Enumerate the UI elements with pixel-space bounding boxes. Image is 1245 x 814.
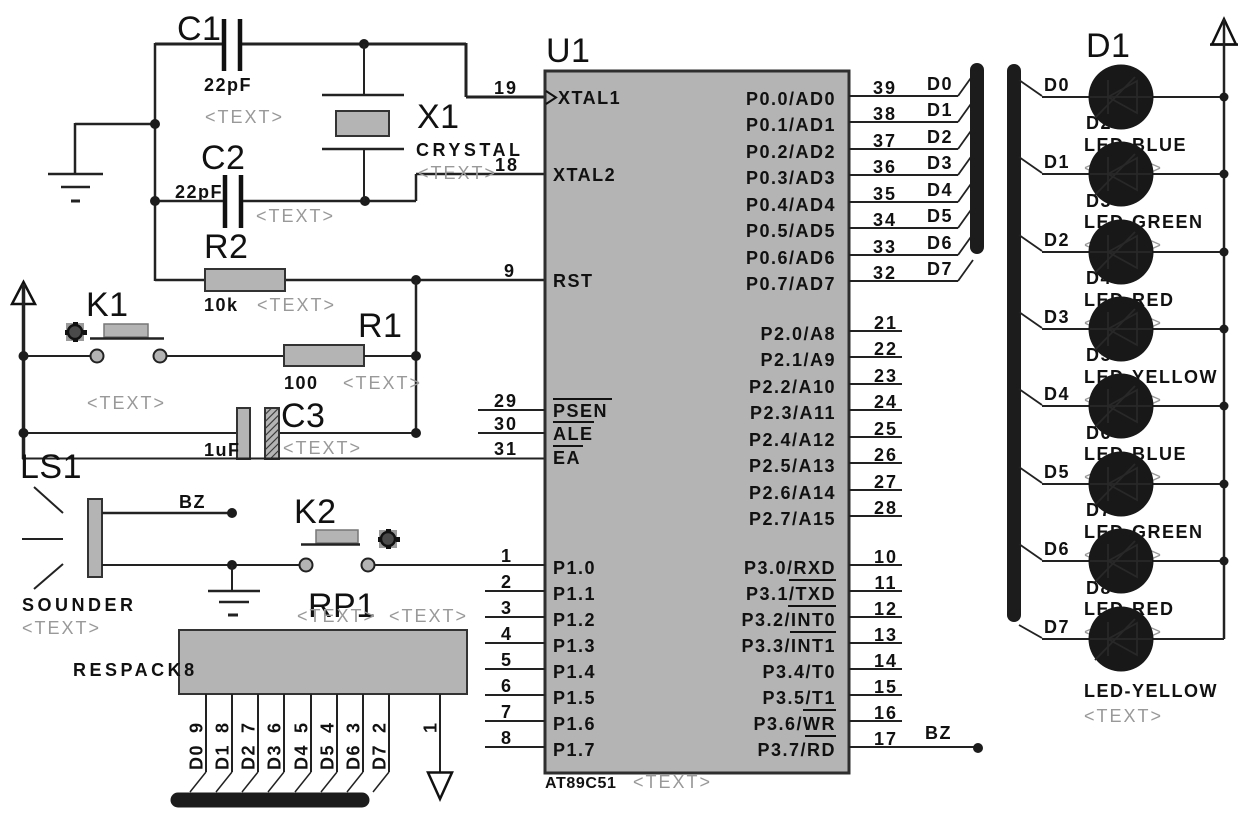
node junction sounder/ground	[227, 560, 237, 570]
wire diagonal to data bus (D4)	[295, 772, 311, 792]
svg-text:17: 17	[874, 729, 898, 749]
overline for P3.2/INT0	[788, 605, 836, 607]
wire diagonal to bus D2	[958, 128, 973, 149]
wire diagonal to data bus (D5)	[321, 772, 337, 792]
svg-text:P1.7: P1.7	[553, 740, 596, 760]
svg-text:34: 34	[873, 210, 897, 230]
node junction VCC rail row 2	[1220, 170, 1229, 179]
wire C3 row	[23, 432, 237, 434]
svg-text:P0.1/AD1: P0.1/AD1	[746, 115, 836, 135]
svg-text:D6: D6	[344, 744, 364, 770]
svg-text:P1.1: P1.1	[553, 584, 596, 604]
svg-text:P3.4/T0: P3.4/T0	[762, 662, 836, 682]
wire LED D2 cathode to VCC rail	[1152, 173, 1224, 175]
power symbol VCC (right)	[1212, 19, 1236, 45]
svg-text:D1: D1	[1086, 27, 1130, 65]
svg-text:35: 35	[873, 184, 897, 204]
respack pin 9 wire	[205, 694, 207, 772]
svg-text:P3.0/RXD: P3.0/RXD	[744, 558, 836, 578]
svg-text:C2: C2	[201, 139, 245, 177]
svg-text:SOUNDER: SOUNDER	[22, 595, 137, 615]
pin P2.5/A13 stub wire	[849, 462, 902, 464]
svg-text:16: 16	[874, 703, 898, 723]
svg-text:2: 2	[370, 721, 390, 733]
pin 6 stub wire	[485, 694, 545, 696]
svg-text:<TEXT>: <TEXT>	[633, 772, 712, 792]
svg-text:P3.5/T1: P3.5/T1	[762, 688, 836, 708]
wire C2 net (XTAL2)	[155, 200, 223, 203]
svg-text:XTAL1: XTAL1	[558, 88, 621, 108]
svg-text:4: 4	[318, 721, 338, 733]
crystal X1 plate top	[322, 94, 404, 97]
button K2 actuator	[379, 530, 397, 548]
svg-text:P2.7/A15: P2.7/A15	[749, 509, 836, 529]
crystal X1 stem top	[363, 44, 365, 95]
node junction VCC/C3	[19, 428, 29, 438]
pin 5 stub wire	[485, 668, 545, 670]
overline for P3.7/RD	[805, 735, 836, 737]
svg-text:P0.7/AD7: P0.7/AD7	[746, 274, 836, 294]
wire diagonal to bus D0	[958, 75, 973, 96]
wire to LED D1 anode	[1042, 96, 1090, 98]
svg-text:D0: D0	[1044, 75, 1070, 95]
svg-text:P0.4/AD4: P0.4/AD4	[746, 195, 836, 215]
wire to LED D6 anode	[1042, 483, 1090, 485]
wire BZ stub	[102, 512, 232, 515]
svg-text:D4: D4	[292, 744, 312, 770]
wire diagonal to bus D6	[958, 234, 973, 255]
svg-text:D6: D6	[927, 233, 953, 253]
svg-text:36: 36	[873, 157, 897, 177]
svg-text:D3: D3	[265, 744, 285, 770]
svg-text:D3: D3	[1044, 307, 1070, 327]
pin P2.3/A11 stub wire	[849, 409, 902, 411]
resistor R1	[284, 345, 364, 366]
wire bus stub to LED D8	[1019, 625, 1042, 638]
svg-text:<TEXT>: <TEXT>	[297, 606, 376, 626]
wire LED D4 cathode to VCC rail	[1152, 328, 1224, 330]
svg-text:D3: D3	[927, 153, 953, 173]
node junction C2 left	[150, 196, 160, 206]
svg-text:1uF: 1uF	[204, 440, 241, 460]
wire R1-C3 vertical x=416	[415, 280, 418, 433]
svg-text:31: 31	[494, 439, 518, 459]
svg-text:P1.5: P1.5	[553, 688, 596, 708]
pin 1 stub wire	[485, 564, 545, 566]
wire diagonal to bus D1	[958, 101, 973, 122]
pin P0.0/AD0 wire	[849, 95, 958, 97]
svg-text:D2: D2	[239, 744, 259, 770]
svg-text:P0.0/AD0: P0.0/AD0	[746, 89, 836, 109]
pin P0.6/AD6 wire	[849, 254, 958, 256]
power symbol VCC (left)	[12, 282, 35, 304]
svg-text:C3: C3	[281, 397, 325, 435]
wire diagonal to data bus (D6)	[347, 772, 363, 792]
svg-text:25: 25	[874, 419, 898, 439]
button K2 contact left	[300, 559, 313, 572]
ground wire tap	[75, 123, 155, 126]
svg-text:P3.2/INT0: P3.2/INT0	[741, 610, 836, 630]
svg-text:<TEXT>: <TEXT>	[205, 107, 284, 127]
svg-text:K2: K2	[294, 493, 337, 531]
wire LED D5 cathode to VCC rail	[1152, 405, 1224, 407]
svg-text:5: 5	[501, 650, 513, 670]
svg-text:P2.0/A8: P2.0/A8	[760, 324, 836, 344]
svg-text:D5: D5	[1044, 462, 1070, 482]
wire LED D3 cathode to VCC rail	[1152, 251, 1224, 253]
pin P0.5/AD5 wire	[849, 227, 958, 229]
svg-text:P0.2/AD2: P0.2/AD2	[746, 142, 836, 162]
wire diagonal to bus D7	[958, 260, 973, 281]
svg-text:P2.3/A11: P2.3/A11	[750, 403, 836, 423]
svg-text:22pF: 22pF	[175, 182, 223, 202]
svg-text:12: 12	[874, 599, 898, 619]
node junction VCC rail row 7	[1220, 557, 1229, 566]
sounder LS1 arc marks	[34, 487, 63, 513]
resistor R2	[205, 269, 285, 291]
svg-text:33: 33	[873, 237, 897, 257]
svg-text:29: 29	[494, 391, 518, 411]
svg-text:<TEXT>: <TEXT>	[87, 393, 166, 413]
wire to LED D4 anode	[1042, 328, 1090, 330]
svg-text:P1.3: P1.3	[553, 636, 596, 656]
wire diagonal to data bus (D7)	[373, 772, 389, 792]
svg-text:D7: D7	[927, 259, 953, 279]
pin P3.5/T1 stub wire	[849, 694, 902, 696]
wire LED D8 cathode to VCC rail	[1152, 638, 1224, 640]
svg-text:D4: D4	[1044, 384, 1070, 404]
ground arrow (respack pin1)	[428, 773, 452, 800]
pin P2.4/A12 stub wire	[849, 436, 902, 438]
capacitor C1	[222, 19, 227, 71]
pin XTAL1 clock marker	[546, 91, 556, 104]
wire to LED D2 anode	[1042, 173, 1090, 175]
wire K1 to R1	[167, 355, 283, 357]
svg-text:32: 32	[873, 263, 897, 283]
data bus vertical (LED side)	[1007, 71, 1021, 615]
respack pin 2 wire	[388, 694, 390, 772]
svg-text:D1: D1	[213, 744, 233, 770]
button K2 contact right	[362, 559, 375, 572]
svg-text:D1: D1	[927, 100, 953, 120]
pin P2.7/A15 stub wire	[849, 515, 902, 517]
wire R1 to node	[364, 355, 416, 357]
wire LED D1 cathode to VCC rail	[1152, 96, 1224, 98]
svg-text:LS1: LS1	[20, 448, 82, 486]
wire diagonal to data bus (D3)	[268, 772, 284, 792]
svg-text:39: 39	[873, 78, 897, 98]
svg-text:<TEXT>: <TEXT>	[257, 295, 336, 315]
svg-text:1: 1	[501, 546, 513, 566]
svg-text:P1.6: P1.6	[553, 714, 596, 734]
respack pin 7 wire	[257, 694, 259, 772]
overline for P3.6/WR	[803, 709, 836, 711]
LED D6 body	[1089, 452, 1154, 517]
svg-text:<TEXT>: <TEXT>	[256, 206, 335, 226]
ground symbol (sounder)	[231, 565, 233, 591]
svg-text:D5: D5	[927, 206, 953, 226]
svg-text:D1: D1	[1044, 152, 1070, 172]
svg-text:R2: R2	[204, 228, 248, 266]
svg-text:P2.6/A14: P2.6/A14	[749, 483, 836, 503]
wire bus stub to LED D7	[1019, 544, 1042, 560]
svg-text:37: 37	[873, 131, 897, 151]
ground symbol (left)	[48, 173, 103, 176]
svg-text:13: 13	[874, 625, 898, 645]
svg-text:<TEXT>: <TEXT>	[389, 606, 468, 626]
node junction C3 right	[411, 428, 421, 438]
pin 29 stub wire	[478, 409, 545, 411]
wire diagonal to data bus (D0)	[190, 772, 206, 792]
pin 30 stub wire	[478, 432, 545, 434]
svg-text:<TEXT>: <TEXT>	[343, 373, 422, 393]
svg-text:RESPACK8: RESPACK8	[73, 660, 198, 680]
crystal X1 stem bottom	[363, 149, 365, 201]
svg-text:<TEXT>: <TEXT>	[418, 163, 497, 183]
svg-text:D0: D0	[187, 744, 207, 770]
svg-text:18: 18	[495, 155, 519, 175]
wire to LED D3 anode	[1042, 251, 1090, 253]
svg-text:P2.2/A10: P2.2/A10	[749, 377, 836, 397]
svg-text:AT89C51: AT89C51	[545, 775, 617, 792]
svg-text:<TEXT>: <TEXT>	[22, 618, 101, 638]
node junction R1	[411, 351, 421, 361]
svg-text:X1: X1	[417, 98, 460, 136]
crystal X1 plate bottom	[322, 148, 404, 151]
svg-text:8: 8	[501, 728, 513, 748]
respack pin 5 wire	[310, 694, 312, 772]
capacitor C2	[223, 175, 228, 228]
svg-text:21: 21	[874, 313, 898, 333]
LED D5 body	[1089, 374, 1154, 439]
svg-text:XTAL2: XTAL2	[553, 165, 616, 185]
svg-text:10k: 10k	[204, 295, 239, 315]
svg-text:PSEN: PSEN	[553, 401, 608, 421]
svg-text:7: 7	[239, 721, 259, 733]
svg-text:6: 6	[501, 676, 513, 696]
wire bus stub to LED D5	[1019, 389, 1042, 405]
svg-text:19: 19	[494, 78, 518, 98]
node BZ terminal (right)	[973, 743, 983, 753]
wire bus stub to LED D2	[1019, 157, 1042, 173]
svg-text:K1: K1	[86, 286, 129, 324]
svg-text:14: 14	[874, 651, 898, 671]
button K1 cap	[104, 324, 148, 337]
svg-text:22pF: 22pF	[204, 75, 252, 95]
pin P0.4/AD4 wire	[849, 201, 958, 203]
svg-text:P0.6/AD6: P0.6/AD6	[746, 248, 836, 268]
svg-text:P0.3/AD3: P0.3/AD3	[746, 168, 836, 188]
svg-text:U1: U1	[546, 32, 590, 70]
svg-text:P3.1/TXD: P3.1/TXD	[746, 584, 836, 604]
pin 2 stub wire	[485, 590, 545, 592]
svg-text:P2.1/A9: P2.1/A9	[760, 350, 836, 370]
crystal X1 body	[336, 111, 389, 136]
svg-text:38: 38	[873, 104, 897, 124]
svg-text:10: 10	[874, 547, 898, 567]
pin P3.6/WR stub wire	[849, 720, 902, 722]
svg-text:<TEXT>: <TEXT>	[1084, 706, 1163, 726]
svg-text:D6: D6	[1044, 539, 1070, 559]
capacitor C3 plate left	[237, 408, 250, 459]
node junction VCC/K1	[19, 351, 29, 361]
pin 7 stub wire	[485, 720, 545, 722]
node junction VCC rail row 4	[1220, 325, 1229, 334]
node junction C2/X1	[360, 196, 370, 206]
svg-text:ALE: ALE	[553, 424, 594, 444]
wire bus stub to LED D6	[1019, 467, 1042, 483]
pin P2.1/A9 stub wire	[849, 356, 902, 358]
wire RST net	[155, 279, 205, 282]
svg-text:6: 6	[265, 721, 285, 733]
pin P0.3/AD3 wire	[849, 174, 958, 176]
svg-text:D2: D2	[1044, 230, 1070, 250]
svg-text:9: 9	[504, 261, 516, 281]
svg-text:22: 22	[874, 339, 898, 359]
LED D7 body	[1089, 529, 1154, 594]
svg-text:100: 100	[284, 373, 319, 393]
svg-text:11: 11	[874, 573, 897, 593]
svg-text:D7: D7	[370, 744, 390, 770]
svg-text:P0.5/AD5: P0.5/AD5	[746, 221, 836, 241]
wire to LED D5 anode	[1042, 405, 1090, 407]
pin P0.2/AD2 wire	[849, 148, 958, 150]
node BZ terminal	[227, 508, 237, 518]
svg-text:1: 1	[421, 721, 441, 733]
svg-text:<TEXT>: <TEXT>	[283, 438, 362, 458]
node junction ground tap	[150, 119, 160, 129]
svg-text:D7: D7	[1044, 617, 1070, 637]
wire bus stub to LED D4	[1019, 312, 1042, 328]
microcontroller U1 body	[545, 71, 849, 773]
respack pin 3 wire	[362, 694, 364, 772]
svg-text:D0: D0	[927, 74, 953, 94]
LED D2 body	[1089, 142, 1154, 207]
button K1 contact left	[91, 350, 104, 363]
LED D1 body	[1089, 65, 1154, 130]
pin P2.0/A8 stub wire	[849, 330, 902, 332]
svg-text:D2: D2	[927, 127, 953, 147]
button K1 contact right	[154, 350, 167, 363]
pin P3.7/RD wire to BZ	[849, 746, 975, 748]
svg-text:3: 3	[344, 721, 364, 733]
svg-text:P1.2: P1.2	[553, 610, 596, 630]
wire diagonal to data bus (D2)	[242, 772, 258, 792]
wire LED D7 cathode to VCC rail	[1152, 560, 1224, 562]
svg-text:BZ: BZ	[925, 723, 952, 743]
svg-text:C1: C1	[177, 10, 221, 48]
svg-text:D5: D5	[318, 744, 338, 770]
LED D3 body	[1089, 220, 1154, 285]
wire C1 top net (XTAL1)	[155, 43, 222, 46]
pin 4 stub wire	[485, 642, 545, 644]
pin P2.6/A14 stub wire	[849, 489, 902, 491]
respack pin 1 wire	[439, 694, 441, 772]
pin 3 stub wire	[485, 616, 545, 618]
svg-text:23: 23	[874, 366, 898, 386]
svg-text:BZ: BZ	[179, 492, 206, 512]
wire diagonal to bus D5	[958, 207, 973, 228]
overline for P3.1/TXD	[789, 579, 836, 581]
pin P3.2/INT0 stub wire	[849, 616, 902, 618]
svg-text:5: 5	[292, 721, 312, 733]
wire VCC rail right	[1223, 19, 1226, 639]
pin P0.7/AD7 wire	[849, 280, 958, 282]
node junction RST/R1	[411, 275, 421, 285]
node junction VCC rail row 1	[1220, 93, 1229, 102]
respack RP1 body	[179, 630, 467, 694]
svg-text:P3.3/INT1: P3.3/INT1	[741, 636, 836, 656]
wire LED D6 cathode to VCC rail	[1152, 483, 1224, 485]
svg-text:26: 26	[874, 445, 898, 465]
svg-text:9: 9	[187, 721, 207, 733]
button K1 bar	[90, 337, 164, 340]
pin P0.1/AD1 wire	[849, 121, 958, 123]
svg-text:P2.5/A13: P2.5/A13	[749, 456, 836, 476]
node junction VCC rail row 6	[1220, 480, 1229, 489]
wire K1 row	[23, 355, 90, 357]
pin P3.4/T0 stub wire	[849, 668, 902, 670]
svg-text:P1.4: P1.4	[553, 662, 596, 682]
svg-text:D4: D4	[927, 180, 953, 200]
wire bus stub to LED D3	[1019, 235, 1042, 251]
button K1 actuator	[66, 323, 84, 341]
svg-text:RST: RST	[553, 271, 594, 291]
svg-text:7: 7	[501, 702, 513, 722]
respack pin 8 wire	[231, 694, 233, 772]
svg-text:30: 30	[494, 414, 518, 434]
node junction VCC rail row 5	[1220, 402, 1229, 411]
svg-text:24: 24	[874, 392, 898, 412]
wire sounder to K2 (pin1 net)	[102, 564, 300, 566]
respack pin 4 wire	[336, 694, 338, 772]
svg-text:R1: R1	[358, 307, 402, 345]
wire EA net (pin31)	[22, 458, 545, 460]
wire diagonal to bus D3	[958, 154, 973, 175]
svg-text:2: 2	[501, 572, 513, 592]
pin P3.3/INT1 stub wire	[849, 642, 902, 644]
wire to LED D7 anode	[1042, 560, 1090, 562]
data bus vertical (P0 side)	[970, 70, 984, 247]
pin P3.0/RXD stub wire	[849, 564, 902, 566]
svg-text:EA: EA	[553, 448, 581, 468]
svg-text:28: 28	[874, 498, 898, 518]
wire bus stub to LED D1	[1019, 80, 1042, 96]
overline for P3.3/INT1	[790, 631, 836, 633]
LED D4 body	[1089, 297, 1154, 362]
svg-text:P3.6/WR: P3.6/WR	[753, 714, 836, 734]
pin 8 stub wire	[485, 746, 545, 748]
button K2 cap	[316, 530, 358, 543]
svg-text:LED-YELLOW: LED-YELLOW	[1084, 681, 1218, 701]
pin P2.2/A10 stub wire	[849, 383, 902, 385]
capacitor C3 plate right (hatched)	[265, 408, 279, 459]
svg-text:27: 27	[874, 472, 898, 492]
LED D8 body	[1089, 607, 1154, 672]
node junction C1/X1	[359, 39, 369, 49]
svg-text:8: 8	[213, 721, 233, 733]
wire to LED D8 anode	[1042, 638, 1090, 640]
svg-text:P2.4/A12: P2.4/A12	[749, 430, 836, 450]
pin P3.1/TXD stub wire	[849, 590, 902, 592]
svg-text:4: 4	[501, 624, 513, 644]
wire diagonal to data bus (D1)	[216, 772, 232, 792]
wire diagonal to bus D4	[958, 181, 973, 202]
sounder LS1 body	[88, 499, 102, 577]
button K2 bar	[301, 543, 360, 546]
svg-text:P3.7/RD: P3.7/RD	[757, 740, 836, 760]
svg-text:P1.0: P1.0	[553, 558, 596, 578]
